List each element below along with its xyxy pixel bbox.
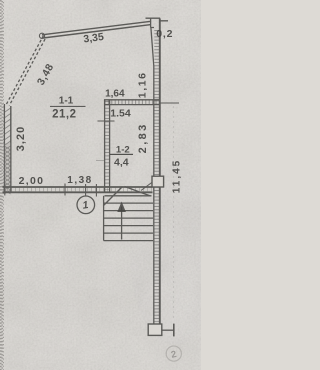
wall: left exterior inner line	[10, 106, 12, 192]
wall: interior vertical, left line	[104, 100, 106, 192]
svg-text:2,00: 2,00	[19, 175, 45, 187]
wall: room 1-2 top, upper line	[104, 99, 160, 101]
dimension tick on right wall at y=103	[160, 102, 179, 104]
wall: right exterior inner line	[153, 66, 155, 324]
wall end square bottom right	[148, 324, 162, 335]
faint vertical dimension line outside right wall	[173, 106, 175, 320]
svg-text:1-2: 1-2	[116, 144, 130, 155]
wall: slanted exterior dashed line A	[7, 36, 44, 105]
interior wall hatch	[105, 101, 110, 190]
svg-text:3,20: 3,20	[15, 126, 27, 151]
faint tick left of interior wall	[96, 160, 104, 162]
left wall dark infill lower	[4, 143, 11, 192]
bottom wall light ticks	[3, 188, 152, 191]
left wall hatch upper	[4, 108, 10, 146]
room 1-2 top wall hatch	[105, 100, 160, 105]
svg-text:2,83: 2,83	[137, 122, 149, 153]
room 1-1 underline	[50, 106, 86, 107]
paper background	[0, 0, 201, 370]
svg-text:4,4: 4,4	[114, 157, 129, 169]
svg-text:21,2: 21,2	[52, 109, 76, 121]
tick crossing interior wall	[98, 120, 115, 122]
stair arrow head	[117, 202, 126, 213]
wall: bottom, upper line	[3, 186, 153, 188]
wall: top exterior line A	[42, 21, 151, 35]
svg-text:11,45: 11,45	[172, 159, 183, 193]
wall: right wedge diagonal	[151, 28, 154, 67]
svg-text:0,2: 0,2	[156, 28, 173, 40]
pier at stair top	[152, 176, 164, 187]
wall: interior vertical, right line	[109, 100, 111, 192]
svg-text:1-1: 1-1	[59, 96, 74, 107]
right wall hatch ladder	[154, 30, 159, 322]
svg-text:1,38: 1,38	[67, 175, 92, 186]
wall: room 1-2 top, lower line	[104, 104, 160, 106]
bottom dimension tick	[173, 324, 175, 337]
wall: slanted exterior dashed line B	[9, 37, 46, 106]
svg-text:1,64: 1,64	[105, 88, 125, 99]
stair arrow shaft	[121, 207, 123, 240]
faint axis circle bottom	[166, 346, 181, 361]
wall: top exterior line B	[43, 25, 151, 38]
room 1-2 underline	[110, 154, 133, 155]
stair break diagonal right	[125, 187, 151, 197]
corner loop at top-left wall junction	[39, 33, 44, 38]
bottom wall dimension ticks	[5, 184, 97, 197]
wall: left exterior outer line	[3, 104, 5, 192]
stair break diagonal to pier	[141, 183, 152, 191]
axis leader line	[85, 184, 87, 196]
left wall crosshatch lower	[4, 146, 10, 194]
svg-text:1.54: 1.54	[110, 108, 131, 120]
wall: right exterior outer line	[159, 19, 161, 325]
stair landing edge	[105, 195, 152, 197]
stair left edge	[103, 196, 105, 241]
top-right notch	[146, 18, 169, 27]
stair treads	[104, 203, 153, 241]
bottom dimension line	[162, 329, 174, 331]
left scan edge strip	[1, 0, 4, 370]
axis circle 1	[77, 196, 95, 214]
svg-text:1,16: 1,16	[137, 71, 149, 98]
wall: bottom, lower line	[3, 191, 153, 193]
stair break diagonal left	[104, 187, 123, 206]
